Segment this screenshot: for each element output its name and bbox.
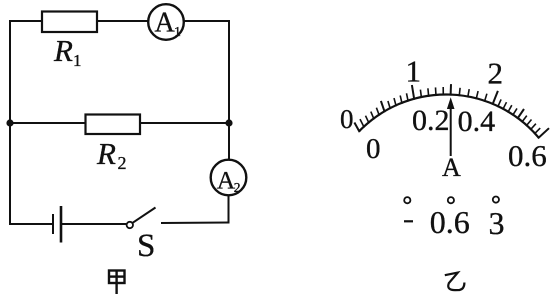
svg-text:A: A: [442, 153, 461, 182]
svg-text:3: 3: [489, 205, 505, 241]
label R1: [53, 33, 82, 70]
svg-text:1: 1: [73, 51, 82, 70]
svg-text:0: 0: [340, 104, 354, 134]
terminal 0.6: [430, 197, 470, 240]
terminal 3: [489, 197, 505, 242]
svg-text:0.6: 0.6: [430, 204, 470, 240]
battery cell: [53, 206, 61, 243]
wire: bottom segment middle: [61, 223, 127, 225]
svg-text:R: R: [53, 33, 73, 68]
resistor R1: [42, 12, 97, 33]
svg-text:A: A: [155, 8, 176, 39]
ammeter A2: [211, 160, 247, 196]
node: junction dot right: [225, 119, 232, 126]
terminal minus: [404, 197, 413, 221]
svg-text:1: 1: [406, 54, 422, 89]
svg-text:2: 2: [488, 56, 504, 91]
ammeter A1: [148, 4, 184, 40]
wire: left vertical: [9, 21, 11, 224]
node: junction dot left: [6, 119, 13, 126]
label R2: [96, 136, 127, 173]
svg-text:S: S: [137, 228, 155, 264]
label jia (caption of circuit, hand-drawn CJK): [109, 271, 125, 295]
svg-text:1: 1: [174, 25, 181, 40]
meter ticks: [354, 84, 549, 138]
svg-text:2: 2: [118, 153, 127, 173]
wire: middle segment right: [139, 122, 229, 124]
wire: right vertical lower: [228, 195, 230, 224]
svg-text:0.4: 0.4: [458, 105, 496, 138]
wire: middle segment left: [10, 122, 86, 124]
svg-text:0.6: 0.6: [508, 138, 547, 173]
svg-text:0.2: 0.2: [412, 104, 450, 137]
wire: top segment right: [184, 20, 231, 22]
wire: top segment left: [9, 20, 43, 22]
label yi (caption of meter, hand-drawn CJK): [445, 273, 465, 291]
switch S: [127, 208, 156, 229]
svg-text:2: 2: [234, 180, 241, 195]
wire: top segment middle: [96, 20, 149, 22]
wire: right vertical upper: [228, 20, 230, 161]
svg-text:R: R: [96, 136, 116, 171]
svg-text:0: 0: [366, 133, 381, 165]
meter scale arc: [359, 94, 539, 137]
wire: bottom right horizontal: [161, 222, 230, 225]
resistor R2: [86, 115, 141, 135]
wire: bottom segment left: [9, 223, 53, 225]
meter needle: [447, 97, 455, 156]
